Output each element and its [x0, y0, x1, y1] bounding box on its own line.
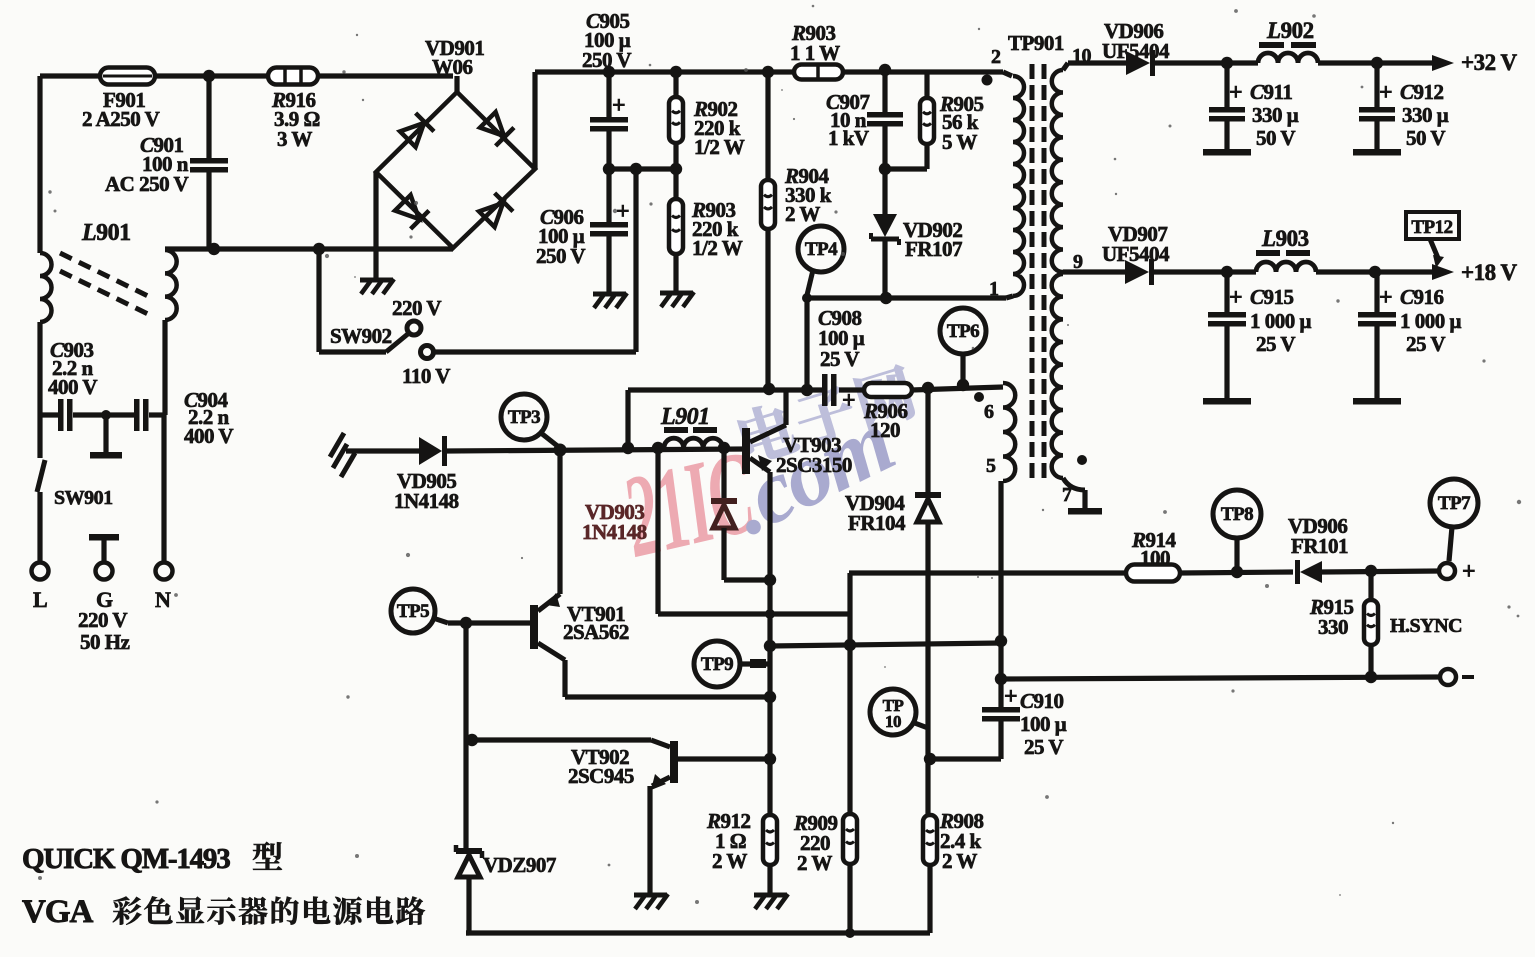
svg-text:C910: C910 [1020, 689, 1064, 713]
svg-text:100: 100 [1140, 546, 1170, 570]
svg-text:250 V: 250 V [536, 244, 585, 268]
svg-text:100 μ: 100 μ [1020, 712, 1067, 736]
svg-text:1/2 W: 1/2 W [692, 236, 743, 260]
svg-text:+: + [612, 93, 625, 119]
svg-text:25 V: 25 V [820, 347, 859, 371]
svg-text:TP6: TP6 [947, 321, 979, 342]
svg-text:TP8: TP8 [1221, 504, 1253, 525]
svg-text:2: 2 [991, 46, 1001, 68]
svg-text:L903: L903 [1261, 226, 1309, 251]
svg-text:400 V: 400 V [48, 375, 97, 399]
svg-text:25 V: 25 V [1406, 332, 1445, 356]
svg-text:3 W: 3 W [277, 127, 312, 151]
svg-text:L: L [33, 587, 47, 612]
svg-text:C911: C911 [1250, 80, 1292, 104]
svg-text:N: N [155, 587, 171, 612]
svg-text:2 A250 V: 2 A250 V [82, 107, 160, 131]
svg-text:+: + [1229, 285, 1242, 311]
svg-text:+: + [1379, 285, 1392, 311]
svg-text:UF5404: UF5404 [1102, 39, 1170, 63]
svg-text:1 000 μ: 1 000 μ [1400, 309, 1462, 333]
svg-text:330: 330 [1318, 615, 1348, 639]
svg-text:400 V: 400 V [184, 424, 233, 448]
svg-text:TP3: TP3 [508, 407, 540, 428]
svg-text:+18 V: +18 V [1461, 260, 1517, 285]
svg-text:1 kV: 1 kV [828, 126, 869, 150]
svg-text:5 W: 5 W [942, 130, 977, 154]
svg-text:1 000 μ: 1 000 μ [1250, 309, 1312, 333]
svg-text:2 W: 2 W [712, 849, 747, 873]
svg-text:250 V: 250 V [582, 48, 631, 72]
svg-text:+: + [1229, 80, 1242, 106]
svg-text:7: 7 [1062, 484, 1072, 506]
svg-text:L901: L901 [660, 404, 710, 430]
svg-text:TP5: TP5 [397, 601, 429, 622]
svg-text:QUICK QM-1493: QUICK QM-1493 [22, 843, 230, 875]
svg-text:1N4148: 1N4148 [582, 520, 647, 544]
svg-text:W06: W06 [432, 55, 473, 79]
svg-text:H.SYNC: H.SYNC [1390, 615, 1462, 637]
svg-text:TP9: TP9 [701, 654, 733, 675]
svg-text:+32 V: +32 V [1461, 50, 1517, 75]
svg-text:FR101: FR101 [1291, 534, 1348, 558]
svg-text:+: + [1462, 559, 1475, 585]
svg-text:2SC3150: 2SC3150 [776, 453, 852, 477]
svg-text:L901: L901 [81, 220, 131, 246]
svg-text:C912: C912 [1400, 80, 1444, 104]
svg-text:VGA: VGA [22, 894, 94, 930]
svg-text:120: 120 [870, 418, 900, 442]
svg-text:AC 250 V: AC 250 V [105, 172, 188, 196]
svg-text:C916: C916 [1400, 285, 1444, 309]
svg-text:1 1 W: 1 1 W [790, 41, 840, 65]
svg-text:2 W: 2 W [797, 851, 832, 875]
svg-text:1/2 W: 1/2 W [694, 135, 745, 159]
svg-text:TP901: TP901 [1008, 31, 1064, 55]
svg-text:FR107: FR107 [905, 237, 962, 261]
svg-text:+: + [1379, 80, 1392, 106]
svg-text:1N4148: 1N4148 [394, 489, 459, 513]
svg-text:1: 1 [989, 278, 999, 300]
svg-text:50 V: 50 V [1256, 126, 1295, 150]
svg-text:25 V: 25 V [1256, 332, 1295, 356]
svg-text:50 Hz: 50 Hz [80, 630, 130, 654]
svg-text:10: 10 [885, 712, 901, 731]
svg-text:220 V: 220 V [392, 296, 441, 320]
svg-text:25 V: 25 V [1024, 735, 1063, 759]
svg-text:330 μ: 330 μ [1252, 103, 1299, 127]
svg-text:L902: L902 [1266, 18, 1314, 43]
svg-text:+: + [616, 199, 629, 225]
svg-text:110 V: 110 V [402, 364, 450, 388]
svg-text:SW902: SW902 [330, 324, 392, 348]
svg-text:2SA562: 2SA562 [563, 620, 629, 644]
svg-text:6: 6 [984, 401, 994, 423]
svg-text:TP7: TP7 [1438, 493, 1471, 514]
svg-text:TP12: TP12 [1411, 217, 1452, 238]
svg-text:5: 5 [986, 455, 996, 477]
svg-text:FR104: FR104 [848, 511, 906, 535]
svg-text:2SC945: 2SC945 [568, 764, 634, 788]
svg-text:220 V: 220 V [78, 608, 127, 632]
svg-text:SW901: SW901 [54, 487, 113, 509]
svg-text:VDZ907: VDZ907 [483, 853, 556, 877]
svg-text:2 W: 2 W [942, 849, 977, 873]
svg-text:2 W: 2 W [785, 202, 820, 226]
svg-text:330 μ: 330 μ [1402, 103, 1449, 127]
svg-text:50 V: 50 V [1406, 126, 1445, 150]
svg-text:+: + [1004, 684, 1017, 710]
svg-text:UF5404: UF5404 [1102, 242, 1170, 266]
svg-text:C915: C915 [1250, 285, 1294, 309]
svg-text:TP4: TP4 [805, 239, 838, 260]
